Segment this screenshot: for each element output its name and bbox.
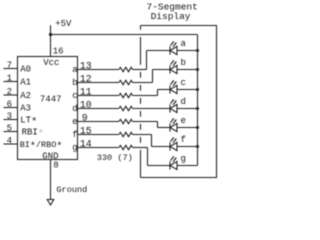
ground symbol — [47, 200, 54, 206]
wire resistor a to jog — [132, 69, 146, 71]
LED c — [170, 80, 177, 93]
svg-text:2: 2 — [7, 87, 12, 97]
svg-text:b: b — [72, 78, 77, 88]
svg-text:c: c — [181, 78, 186, 88]
wire jog to LED b — [153, 69, 171, 71]
resistor Rf 330 ohm — [119, 132, 132, 136]
IC U1 7447 body — [18, 57, 78, 160]
wire g pin to resistor — [78, 147, 119, 149]
wire resistor b to jog — [132, 82, 152, 84]
svg-text:a: a — [72, 65, 78, 75]
svg-text:8: 8 — [53, 160, 58, 170]
wire jog to LED c — [158, 89, 171, 91]
junction dot rail e — [196, 126, 199, 129]
resistor Rb 330 ohm — [119, 80, 132, 84]
svg-text:7447: 7447 — [40, 94, 62, 104]
wire d pin to resistor — [78, 108, 119, 110]
pin 4 input BI*/RBO* wire — [4, 143, 18, 145]
wire +5V horizontal rail to display — [51, 34, 198, 36]
svg-text:6: 6 — [7, 100, 12, 110]
svg-text:A0: A0 — [20, 65, 31, 75]
pin 7 input A0 wire — [4, 68, 18, 70]
wire resistor f to jog — [132, 134, 151, 136]
svg-text:A3: A3 — [20, 104, 31, 114]
junction dot +5V branch — [49, 33, 52, 36]
junction dot rail d — [196, 107, 199, 110]
wire a pin to resistor — [78, 69, 119, 71]
LED f — [170, 137, 177, 150]
wire resistor e to jog — [132, 121, 157, 123]
resistor Ra 330 ohm — [119, 67, 132, 71]
svg-text:A1: A1 — [20, 78, 31, 88]
junction dot rail c — [196, 88, 199, 91]
wire common anode rail — [197, 35, 199, 166]
svg-text:1: 1 — [7, 74, 12, 84]
wire LED b anode to rail — [177, 69, 198, 71]
junction dot rail a — [196, 49, 199, 52]
wire LED e anode to rail — [177, 127, 198, 129]
pin 5 input RBI wire — [4, 131, 18, 133]
wire jog to LED e — [158, 127, 171, 129]
svg-text:BI*/RBO*: BI*/RBO* — [20, 140, 63, 153]
wire jog vertical g — [147, 148, 149, 166]
svg-text:f: f — [72, 130, 77, 140]
svg-text:Vcc: Vcc — [43, 58, 59, 68]
pin 2 input A2 wire — [4, 94, 18, 96]
display module box — [141, 26, 217, 178]
svg-text:LT*: LT* — [20, 116, 37, 129]
LED b — [170, 60, 177, 73]
LED a — [170, 41, 177, 54]
junction dot rail b — [196, 68, 199, 71]
wire b pin to resistor — [78, 82, 119, 84]
svg-text:g: g — [72, 143, 77, 153]
svg-text:d: d — [72, 104, 77, 114]
svg-text:e: e — [72, 117, 77, 127]
wire LED f anode to rail — [177, 146, 198, 148]
svg-text:7: 7 — [7, 61, 12, 71]
display box left edge (broken at wire crossings) — [140, 26, 142, 178]
wire jog vertical c — [157, 90, 159, 96]
wire jog vertical e — [157, 122, 159, 128]
svg-text:RBI*: RBI* — [22, 128, 45, 141]
svg-text:Ground: Ground — [56, 185, 87, 195]
wire jog vertical a — [146, 51, 148, 70]
wire jog to LED a — [147, 50, 171, 52]
pin 1 input A1 wire — [4, 81, 18, 83]
resistor Rg 330 ohm — [119, 145, 132, 149]
pin 3 input LT* wire — [4, 119, 18, 121]
wire +5V vertical to pin 16 — [50, 25, 52, 56]
resistor Rd 330 ohm — [119, 106, 132, 110]
wire LED d anode to rail — [177, 108, 198, 110]
svg-text:16: 16 — [53, 47, 64, 57]
resistor Rc 330 ohm — [119, 93, 132, 97]
wire LED a anode to rail — [177, 50, 198, 52]
svg-text:b: b — [181, 58, 186, 68]
svg-text:e: e — [181, 116, 186, 126]
wire LED g anode to rail — [177, 165, 198, 167]
wire jog vertical b — [152, 70, 154, 83]
wire resistor d to LED — [132, 108, 170, 110]
wire f pin to resistor — [78, 134, 119, 136]
svg-text:c: c — [72, 91, 77, 101]
LED e — [170, 118, 177, 131]
svg-text:g: g — [181, 154, 186, 164]
wire jog vertical f — [151, 135, 153, 147]
junction dot rail f — [196, 145, 199, 148]
svg-text:a: a — [181, 39, 187, 49]
svg-text:A2: A2 — [20, 91, 31, 101]
wire resistor c to jog — [132, 95, 157, 97]
svg-text:d: d — [181, 97, 186, 107]
wire e pin to resistor — [78, 121, 119, 123]
wire LED c anode to rail — [177, 89, 198, 91]
svg-text:+5V: +5V — [55, 19, 72, 29]
wire jog to LED g — [148, 165, 171, 167]
svg-text:4: 4 — [7, 136, 12, 146]
wire resistor g to jog — [132, 147, 147, 149]
svg-text:330 (7): 330 (7) — [97, 153, 133, 163]
LED g — [170, 156, 177, 169]
wire c pin to resistor — [78, 95, 119, 97]
svg-text:f: f — [181, 135, 186, 145]
svg-text:5: 5 — [7, 124, 12, 134]
svg-text:3: 3 — [7, 112, 12, 122]
resistor Re 330 ohm — [119, 119, 132, 123]
svg-text:Display: Display — [151, 11, 191, 22]
pin 6 input A3 wire — [4, 107, 18, 109]
wire jog to LED f — [152, 146, 171, 148]
LED d — [170, 99, 177, 112]
wire GND pin 8 — [50, 160, 52, 200]
